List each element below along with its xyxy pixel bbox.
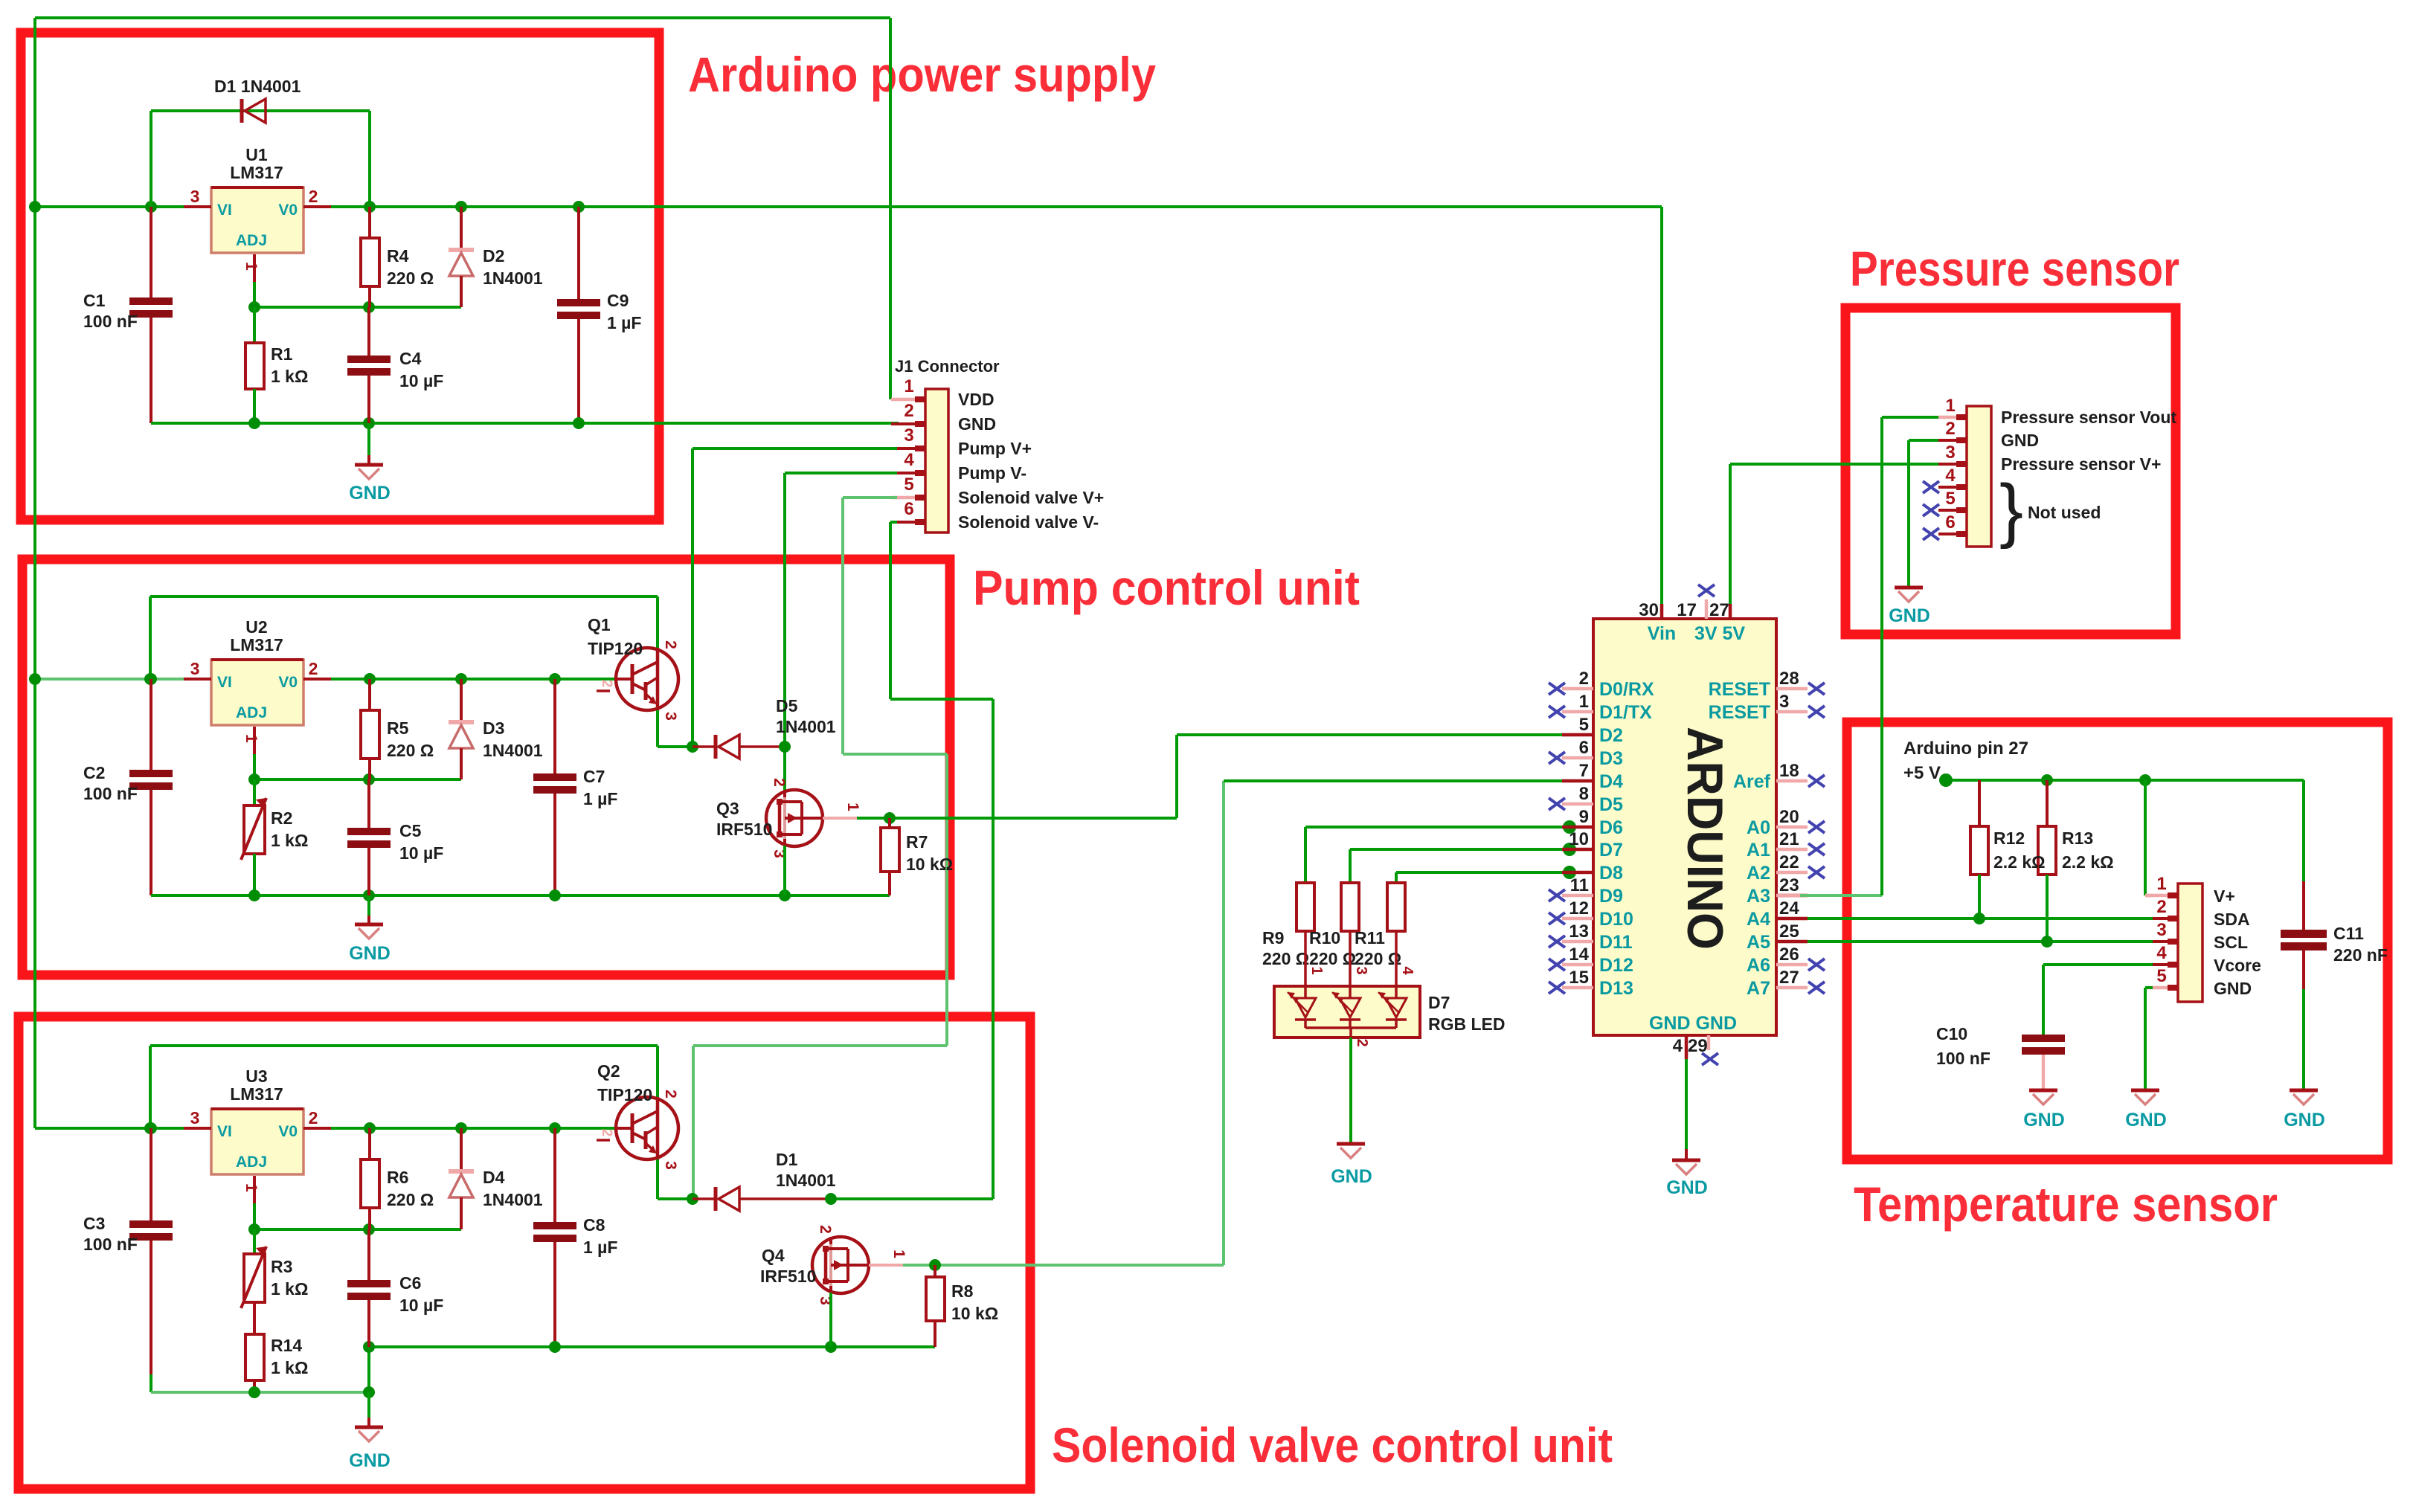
svg-text:1 kΩ: 1 kΩ <box>271 367 308 386</box>
svg-text:100 nF: 100 nF <box>1936 1049 1991 1068</box>
svg-text:3: 3 <box>1353 966 1369 974</box>
node dot C1 top <box>145 201 157 213</box>
node dot R8 top <box>929 1259 941 1271</box>
U3 pin 1 (ADJ) stub <box>242 1176 260 1229</box>
voltage regulator U3 LM317 <box>211 1067 303 1174</box>
node dot C7 bottom <box>549 889 561 901</box>
svg-text:A6: A6 <box>1747 955 1770 976</box>
svg-text:220 Ω: 220 Ω <box>1262 949 1309 968</box>
svg-text:3: 3 <box>662 712 679 721</box>
title Arduino power supply <box>688 47 1156 102</box>
svg-text:V0: V0 <box>278 674 298 691</box>
wire temp connector GND pin to ground <box>2145 988 2153 1090</box>
svg-text:A2: A2 <box>1747 863 1770 884</box>
svg-text:R13: R13 <box>2062 829 2093 848</box>
svg-text:VI: VI <box>217 1123 232 1140</box>
transistor Q4 IRF510 <box>760 1225 869 1305</box>
ground symbol power supply <box>349 423 391 504</box>
Arduino pin D13 <box>1549 968 1633 999</box>
Arduino pin D4 <box>1562 761 1623 792</box>
frame: Arduino power supply box <box>21 33 659 520</box>
wire J1 pin 3 to Q1 emitter node <box>693 448 897 747</box>
svg-text:1 kΩ: 1 kΩ <box>271 831 308 850</box>
node dot U1 ADJ <box>248 301 260 313</box>
svg-text:1: 1 <box>2156 874 2166 894</box>
svg-text:2: 2 <box>771 778 788 787</box>
ground symbol pressure sensor <box>1889 588 1930 626</box>
U2 pin 3 (VI) stub <box>184 659 211 679</box>
svg-text:GND GND: GND GND <box>1649 1013 1737 1034</box>
U1 pin 1 (ADJ) stub <box>242 254 260 307</box>
svg-text:R2: R2 <box>271 808 292 828</box>
resistor R12 2.2 kohm <box>1970 780 1988 919</box>
svg-text:3: 3 <box>190 187 200 206</box>
wire Arduino A4 SDA line <box>1808 917 2153 920</box>
svg-text:6: 6 <box>1579 738 1589 758</box>
temperature connector pin 4 Vcore <box>2153 943 2261 975</box>
svg-text:29: 29 <box>1688 1036 1708 1056</box>
svg-text:10 kΩ: 10 kΩ <box>906 855 953 874</box>
node dot at D8 pin <box>1563 866 1576 879</box>
svg-text:Pump control unit: Pump control unit <box>973 560 1360 615</box>
Arduino pin RESET (28) <box>1709 669 1825 700</box>
svg-text:1: 1 <box>1579 692 1589 712</box>
svg-text:3: 3 <box>190 659 200 678</box>
wire J1 pin 5 to Q2 emitter node <box>693 498 947 1199</box>
svg-text:2: 2 <box>599 1129 614 1137</box>
svg-text:2: 2 <box>904 401 913 421</box>
RGB LED pin 4 stub <box>1396 931 1416 986</box>
wire U3 ADJ node line <box>254 1228 461 1231</box>
svg-text:Temperature sensor: Temperature sensor <box>1854 1177 2278 1232</box>
Arduino pin A0 (20) <box>1747 807 1825 838</box>
capacitor C3 100 nF <box>83 1128 173 1392</box>
U2 pin 1 (ADJ) stub <box>242 727 260 779</box>
connector temperature sensor header <box>2178 884 2202 1002</box>
svg-text:Pressure sensor Vout: Pressure sensor Vout <box>2001 408 2176 427</box>
svg-text:100 nF: 100 nF <box>83 784 138 803</box>
label R13 2.2 kohm <box>2062 829 2114 872</box>
resistor R1 1 kohm <box>245 307 308 423</box>
pressure connector pin 1 <box>1938 396 2176 427</box>
svg-text:A0: A0 <box>1747 817 1770 838</box>
frame: Solenoid valve control unit box <box>19 1017 1030 1489</box>
frame: Pump control unit box <box>22 559 950 975</box>
temperature connector pin 5 GND <box>2153 966 2252 998</box>
svg-text:D3: D3 <box>1599 748 1623 769</box>
svg-text:V0: V0 <box>278 1123 298 1140</box>
wire U2 output to Q1 base <box>331 678 616 681</box>
svg-text:17: 17 <box>1677 600 1697 620</box>
capacitor C9 1 uF <box>557 207 641 423</box>
Arduino pin D10 <box>1549 898 1633 930</box>
Arduino pin A1 (21) <box>1747 829 1825 860</box>
Arduino pin D1/TX <box>1549 692 1652 723</box>
resistor R6 220 ohm <box>361 1128 434 1229</box>
resistor R10 220 ohm <box>1309 883 1359 968</box>
Arduino pin Aref (18) <box>1733 761 1825 792</box>
J1 pin 4 Pump V- <box>891 450 1026 483</box>
svg-text:D12: D12 <box>1599 955 1633 976</box>
brace not-used pins <box>1999 470 2101 550</box>
svg-text:A1: A1 <box>1747 840 1770 860</box>
capacitor C5 10 uF <box>347 779 443 895</box>
Arduino pin D8 <box>1562 863 1623 884</box>
wire Arduino A5 SCL line <box>1808 940 2153 943</box>
Q3 pin 1 stub <box>823 802 861 818</box>
Arduino pin A3 (23) <box>1747 875 1808 907</box>
RGB LED pin 2 to ground <box>1351 1038 1370 1144</box>
svg-text:Q2: Q2 <box>597 1061 620 1081</box>
ground symbol pump unit <box>349 895 391 964</box>
wire pressure pin 1 down to A3 <box>1882 416 1938 419</box>
ground symbol RGB LED <box>1331 1144 1372 1187</box>
svg-text:30: 30 <box>1639 600 1659 620</box>
svg-text:Solenoid valve V-: Solenoid valve V- <box>958 512 1099 532</box>
wire U3 output to Q2 base <box>331 1127 616 1130</box>
node dot R5 top <box>364 673 376 685</box>
ground symbol C11 <box>2284 1090 2325 1130</box>
svg-text:2: 2 <box>662 1090 679 1098</box>
svg-text:LM317: LM317 <box>230 1084 283 1104</box>
svg-text:Arduino pin 27: Arduino pin 27 <box>1903 739 2028 759</box>
Arduino pin D3 <box>1549 738 1623 769</box>
node dot D4 top <box>455 1122 467 1134</box>
node dot left rail at U2 line <box>29 673 41 685</box>
svg-text:A7: A7 <box>1747 978 1770 999</box>
node dot at D6 pin <box>1563 820 1576 834</box>
svg-text:R11: R11 <box>1355 928 1385 948</box>
svg-text:3: 3 <box>190 1108 200 1127</box>
wire Vcore to C10 <box>2043 965 2153 1035</box>
svg-text:Q3: Q3 <box>716 799 739 818</box>
svg-text:C4: C4 <box>399 349 422 368</box>
svg-text:2: 2 <box>1945 419 1955 439</box>
pressure connector pin 5 <box>1923 489 1967 516</box>
svg-text:D7: D7 <box>1599 840 1623 860</box>
svg-text:1: 1 <box>1308 966 1325 974</box>
Arduino pin A4 (24) <box>1747 898 1808 930</box>
variable resistor R2 1 kohm <box>241 779 308 895</box>
svg-text:D6: D6 <box>1599 817 1623 838</box>
diode D1 1N4001 (power supply) <box>214 77 301 123</box>
capacitor C11 220 nF <box>2281 881 2388 1090</box>
wire U1 ADJ node line <box>254 306 461 309</box>
svg-text:A5: A5 <box>1747 932 1770 953</box>
svg-text:D5: D5 <box>1599 794 1623 815</box>
svg-text:220 Ω: 220 Ω <box>387 268 434 288</box>
wire Arduino 5V to pressure sensor V+ <box>1730 464 1938 604</box>
U1 pin 2 (V0) stub <box>303 187 331 207</box>
ground symbol solenoid unit <box>349 1392 391 1471</box>
svg-text:1: 1 <box>1945 396 1955 416</box>
svg-text:TIP120: TIP120 <box>588 639 643 658</box>
resistor R4 220 ohm <box>361 207 434 307</box>
resistor R14 1 kohm <box>245 1334 308 1392</box>
frame: Temperature sensor box <box>1847 722 2388 1159</box>
svg-text:D4: D4 <box>1599 771 1623 792</box>
svg-text:D3: D3 <box>483 718 504 738</box>
node dot D1 cathode-side junction / Q4 gate node <box>825 1193 837 1205</box>
svg-text:26: 26 <box>1779 945 1799 965</box>
svg-text:D8: D8 <box>1599 863 1623 884</box>
ground symbol Arduino <box>1666 1160 1708 1198</box>
svg-text:ARDUINO: ARDUINO <box>1677 727 1733 950</box>
pressure connector pin 3 <box>1938 443 2161 474</box>
svg-text:1 µF: 1 µF <box>607 313 641 332</box>
wire +5V node line <box>1946 780 2304 881</box>
svg-text:100 nF: 100 nF <box>83 1235 138 1254</box>
pink stub temp pin1 <box>2145 894 2168 898</box>
node dot R6 bottom / C6 top <box>363 1223 375 1235</box>
svg-text:11: 11 <box>1570 875 1589 895</box>
variable resistor R3 1 kohm <box>241 1229 308 1334</box>
wire pump unit input segment <box>35 678 184 681</box>
svg-text:2: 2 <box>309 187 318 206</box>
capacitor C4 10 uF <box>347 307 443 423</box>
node dot R1 bottom <box>248 417 260 429</box>
transistor Q2 TIP120 <box>597 1061 679 1170</box>
node dot R2 bottom <box>248 889 260 901</box>
svg-text:Pump V+: Pump V+ <box>958 439 1032 458</box>
svg-text:25: 25 <box>1779 921 1799 942</box>
svg-text:Q4: Q4 <box>762 1246 785 1265</box>
Arduino pin A6 (26) <box>1747 945 1825 976</box>
svg-text:R10: R10 <box>1309 928 1340 948</box>
svg-text:VI: VI <box>217 202 232 219</box>
node dot R4 top <box>364 201 376 213</box>
Arduino pin D9 <box>1549 875 1623 907</box>
pink stub pressure pin1 <box>1938 416 1956 419</box>
node dot solenoid input at collector feed <box>144 1122 156 1134</box>
svg-text:D1: D1 <box>776 1150 798 1169</box>
temperature connector pin 3 SCL <box>2153 920 2248 952</box>
svg-text:D11: D11 <box>1599 932 1633 953</box>
resistor R7 10 kohm <box>881 818 953 895</box>
svg-text:V+: V+ <box>2214 887 2235 906</box>
RGB LED pin 1 stub <box>1305 931 1325 986</box>
svg-text:D10: D10 <box>1599 909 1633 930</box>
resistor R9 220 ohm <box>1262 883 1314 968</box>
wire pump ground rail <box>151 894 890 897</box>
voltage regulator U1 LM317 <box>211 145 303 253</box>
node dot C6 bottom <box>363 1341 375 1353</box>
svg-text:R4: R4 <box>387 246 409 266</box>
wire Q2 emitter to D1 node <box>658 1159 693 1199</box>
wire left input rail <box>33 18 36 1128</box>
wire J1 pin 6 to Q4 drain node <box>890 522 993 1199</box>
svg-text:D1/TX: D1/TX <box>1599 702 1652 723</box>
svg-text:10 µF: 10 µF <box>399 1296 443 1315</box>
temperature connector pin 2 SDA <box>2153 897 2250 929</box>
J1 pin 6 Solenoid valve V- <box>891 499 1099 532</box>
capacitor C6 10 uF <box>347 1229 443 1347</box>
node dot D1 anode-side junction <box>687 1193 698 1205</box>
svg-text:5: 5 <box>1945 489 1955 509</box>
wire Arduino A3 to pressure sensor Vout <box>1776 417 1882 895</box>
svg-text:IRF510: IRF510 <box>716 820 772 839</box>
capacitor C8 1 uF <box>533 1128 617 1347</box>
svg-text:5: 5 <box>2156 966 2166 986</box>
svg-text:1: 1 <box>904 376 913 396</box>
svg-text:1N4001: 1N4001 <box>483 741 543 760</box>
svg-text:20: 20 <box>1779 807 1799 827</box>
resistor R13 2.2 kohm <box>2038 780 2056 942</box>
svg-text:Solenoid valve V+: Solenoid valve V+ <box>958 488 1104 507</box>
Arduino pin D12 <box>1549 945 1633 976</box>
pressure connector pin 4 <box>1923 466 1967 493</box>
ground symbol temp connector <box>2125 1090 2167 1130</box>
label D7 RGB LED <box>1428 993 1506 1034</box>
svg-text:C10: C10 <box>1936 1024 1967 1043</box>
svg-text:C3: C3 <box>83 1214 105 1233</box>
svg-text:1N4001: 1N4001 <box>776 717 836 736</box>
svg-text:R3: R3 <box>271 1257 292 1276</box>
svg-text:1N4001: 1N4001 <box>776 1171 836 1190</box>
voltage regulator U2 LM317 <box>211 617 303 725</box>
svg-text:100 nF: 100 nF <box>83 312 138 331</box>
svg-text:7: 7 <box>1579 761 1589 781</box>
capacitor C1 100 nF <box>83 207 173 423</box>
svg-text:10 kΩ: 10 kΩ <box>951 1304 998 1323</box>
node dot GND stub solenoid <box>363 1386 375 1398</box>
Arduino pin 5V (27) <box>1694 600 1745 644</box>
svg-text:2: 2 <box>662 640 679 649</box>
svg-text:2: 2 <box>1579 669 1589 689</box>
svg-text:4: 4 <box>1673 1036 1683 1056</box>
Arduino pin D7 <box>1562 829 1623 860</box>
svg-text:1: 1 <box>242 262 260 271</box>
svg-text:C9: C9 <box>607 291 629 310</box>
svg-text:GND: GND <box>958 414 996 434</box>
svg-text:Pressure sensor V+: Pressure sensor V+ <box>2001 454 2161 474</box>
svg-text:10: 10 <box>1569 829 1589 849</box>
node dot C2 top <box>145 673 157 685</box>
diode D1 1N4001 (solenoid) <box>693 1150 836 1211</box>
node dot C3 top <box>145 1122 157 1134</box>
wire solenoid ground rail left <box>151 1347 369 1392</box>
Arduino pin GND (29) not connected <box>1688 1035 1718 1065</box>
svg-text:4: 4 <box>904 450 914 470</box>
temperature connector pin 1 V+ <box>2153 874 2235 906</box>
resistor R8 10 kohm <box>926 1265 998 1347</box>
svg-text:D4: D4 <box>483 1168 505 1187</box>
svg-text:U2: U2 <box>245 617 267 637</box>
Arduino pin D5 <box>1549 784 1623 815</box>
svg-text:6: 6 <box>904 499 913 519</box>
svg-text:15: 15 <box>1569 968 1589 988</box>
capacitor C2 100 nF <box>83 679 173 895</box>
connector pressure sensor header <box>1967 406 1991 547</box>
svg-text:Vcore: Vcore <box>2214 956 2261 975</box>
svg-text:4: 4 <box>1399 966 1416 975</box>
svg-text:2: 2 <box>1354 1038 1370 1046</box>
svg-text:21: 21 <box>1779 829 1799 849</box>
label Arduino pin 27 +5V <box>1903 739 2028 783</box>
Arduino pin A7 (27) <box>1747 968 1825 999</box>
svg-text:J1 Connector: J1 Connector <box>895 357 1000 376</box>
svg-text:D9: D9 <box>1599 886 1623 907</box>
node dot D5 cathode-side junction / Q3 gate node <box>779 741 791 753</box>
svg-text:27: 27 <box>1709 600 1729 620</box>
wire Arduino D8 to R11 <box>1396 872 1593 883</box>
svg-text:C2: C2 <box>83 763 105 782</box>
diode D3 1N4001 <box>449 679 543 779</box>
svg-text:2: 2 <box>2156 897 2166 917</box>
svg-text:13: 13 <box>1569 921 1589 942</box>
svg-text:C7: C7 <box>583 767 605 786</box>
Arduino pin A2 (22) <box>1747 852 1825 884</box>
svg-text:1: 1 <box>242 734 260 743</box>
node dot R5 bottom / C5 top <box>363 773 375 785</box>
svg-text:1 µF: 1 µF <box>583 789 617 808</box>
svg-text:R5: R5 <box>387 718 409 738</box>
diode D4 1N4001 <box>449 1128 543 1229</box>
svg-text:3: 3 <box>2156 920 2166 940</box>
svg-text:A3: A3 <box>1747 886 1770 907</box>
RGB LED pin 3 stub <box>1350 931 1369 986</box>
svg-text:Pump V-: Pump V- <box>958 463 1026 483</box>
transistor Q1 TIP120 <box>588 615 679 721</box>
svg-text:8: 8 <box>1579 784 1589 804</box>
svg-text:3: 3 <box>1779 692 1789 712</box>
svg-text:D1 1N4001: D1 1N4001 <box>214 77 301 96</box>
node dot U2 ADJ <box>248 773 260 785</box>
title Temperature sensor <box>1854 1177 2278 1232</box>
U1 pin 3 (VI) stub <box>184 187 211 207</box>
node dot R7 top <box>884 812 896 824</box>
svg-text:Not used: Not used <box>2028 503 2101 522</box>
resistor R11 220 ohm <box>1355 883 1405 968</box>
wire pressure pin 2 to ground <box>1909 440 1938 588</box>
wire Arduino D7 to R10 <box>1350 849 1593 883</box>
svg-text:12: 12 <box>1569 898 1589 919</box>
wire D1 bypass loop over U1 <box>151 111 370 207</box>
node dot C9 top <box>573 201 585 213</box>
svg-text:22: 22 <box>1779 852 1799 872</box>
svg-text:GND: GND <box>2023 1110 2065 1130</box>
J1 pin 2 GND <box>891 401 996 434</box>
node dot D3 top <box>455 673 467 685</box>
svg-text:GND: GND <box>2214 979 2252 998</box>
svg-text:GND: GND <box>349 943 391 964</box>
svg-text:LM317: LM317 <box>230 163 283 182</box>
pink stub temp pin5 <box>2145 986 2168 990</box>
svg-text:ADJ: ADJ <box>236 1154 267 1171</box>
svg-text:GND: GND <box>349 483 391 504</box>
node dot C8 top <box>549 1122 561 1134</box>
svg-text:GND: GND <box>2001 431 2039 450</box>
label R12 2.2 kohm <box>1993 829 2046 872</box>
J1 pin 1 VDD <box>891 376 995 409</box>
Arduino pin A5 (25) <box>1747 921 1808 953</box>
svg-text:2.2 kΩ: 2.2 kΩ <box>2062 852 2114 872</box>
svg-text:220 nF: 220 nF <box>2333 945 2388 965</box>
node dot V+ branch <box>2139 774 2151 786</box>
transistor Q3 IRF510 <box>716 778 823 858</box>
resistor R5 220 ohm <box>361 679 434 779</box>
diode D5 1N4001 <box>693 696 836 759</box>
wire power-supply input segment <box>35 205 184 208</box>
J1 pin 3 Pump V+ <box>891 425 1032 458</box>
node dot R4 bottom / C4 top <box>363 301 375 313</box>
wire Q4 source to solenoid rail <box>829 1293 832 1347</box>
Arduino pin GND (4) <box>1649 1013 1737 1059</box>
node dot C9 bottom <box>573 417 585 429</box>
svg-text:D13: D13 <box>1599 978 1633 999</box>
wire Q4 drain output to Arduino D4 <box>903 781 1593 1265</box>
title Solenoid valve control unit <box>1052 1418 1613 1473</box>
